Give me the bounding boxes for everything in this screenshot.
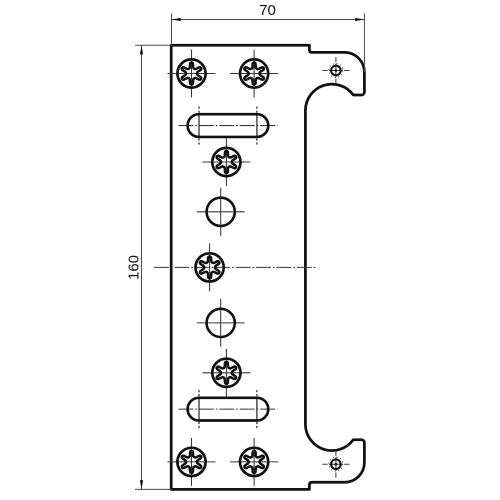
dimension 70 line (172, 19, 365, 21)
dimension 70 extension line left (171, 14, 173, 46)
hole C1 crosshair (197, 188, 245, 236)
torx screw S7 (240, 448, 268, 476)
slot 2 centerline vertical left (198, 390, 200, 428)
slot 2 centerline vertical right (256, 390, 258, 428)
dimension 160 extension line top (135, 44, 171, 46)
torx screw S6 (177, 448, 205, 476)
svg-text:160: 160 (126, 255, 143, 280)
torx screw S4 (196, 253, 224, 281)
dimension 70 arrow right (355, 18, 364, 21)
torx screw S1 (177, 59, 205, 87)
dimension 160 arrow bottom (140, 480, 143, 489)
dimension 160 arrow top (140, 45, 143, 54)
slot 1 centerline horizontal (179, 125, 278, 127)
ear hole bottom (322, 451, 349, 478)
torx screw S2 (240, 59, 268, 87)
dimension 70 arrow left (172, 18, 181, 21)
dimension 160 line (141, 45, 143, 489)
slot 1 centerline vertical left (198, 107, 200, 145)
slot 2 (188, 398, 269, 421)
torx screw S5 crosshair (202, 349, 250, 397)
torx screw S4 vertical crosshair (209, 243, 211, 291)
torx screw S7 crosshair (230, 438, 278, 486)
hole C2 crosshair (197, 299, 245, 347)
torx screw S5 (212, 359, 240, 387)
slot 2 centerline horizontal (179, 408, 278, 410)
hole C2 (207, 309, 235, 337)
slot 1 centerline vertical right (256, 107, 258, 145)
torx screw S3 crosshair (202, 138, 250, 186)
main horizontal centerline (154, 266, 317, 268)
ear hole top (322, 57, 349, 84)
dimension 70 extension line right (363, 14, 365, 73)
hole C1 (207, 198, 235, 226)
torx screw S3 (212, 148, 240, 176)
torx screw S1 crosshair (168, 50, 216, 98)
torx screw S6 crosshair (168, 438, 216, 486)
slot 1 (188, 114, 269, 137)
dimension 160 extension line bottom (135, 488, 171, 490)
plate outline (171, 45, 364, 489)
svg-text:70: 70 (259, 2, 276, 19)
torx screw S2 crosshair (230, 50, 278, 98)
